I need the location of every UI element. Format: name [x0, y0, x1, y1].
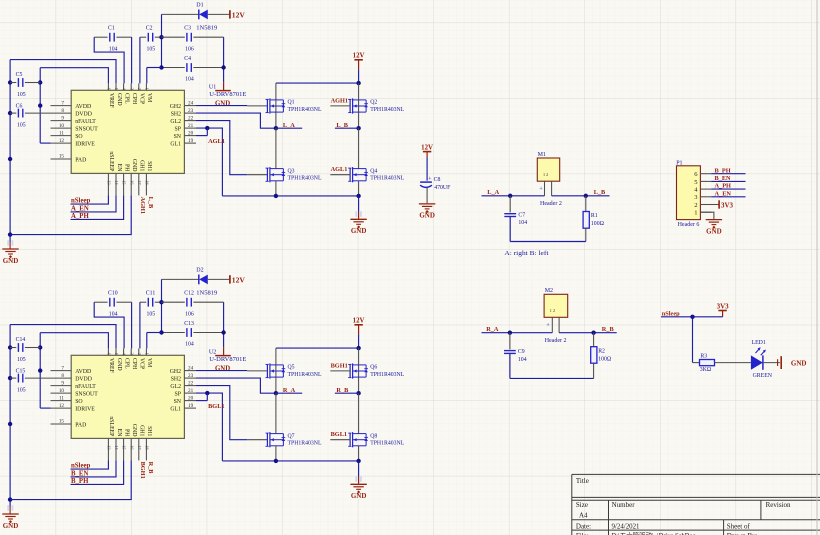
svg-text:L_A: L_A: [487, 189, 499, 196]
svg-text:23: 23: [188, 108, 194, 114]
IC designator U1: [209, 85, 247, 99]
svg-text:105: 105: [17, 123, 26, 129]
net label BGH1 rotated on GH1: [139, 462, 146, 479]
svg-text:L_A: L_A: [283, 122, 295, 129]
resistor R3 3K: [700, 354, 715, 374]
svg-text:BGH1: BGH1: [331, 363, 348, 370]
svg-text:Q3: Q3: [288, 168, 295, 174]
svg-text:+: +: [539, 185, 543, 192]
capacitor C14 105: [10, 337, 40, 363]
svg-text:12V: 12V: [232, 10, 246, 19]
wire CP1 jog: [94, 302, 124, 348]
svg-text:VM: VM: [146, 93, 152, 102]
svg-text:C9: C9: [518, 349, 525, 355]
resistor R2 100: [591, 333, 612, 379]
resistor R1 100: [583, 196, 604, 242]
header M2 (Header 2): [544, 288, 568, 344]
capacitor C13 104: [159, 321, 223, 348]
wire GND pin to left rail: [10, 195, 131, 234]
power port 12V: [230, 275, 245, 284]
wire GND top-left run: [10, 60, 116, 84]
wire bridge top rail: [276, 346, 361, 350]
net label BGH1 at Q6 gate: [330, 363, 350, 371]
IC U1 left pins 7-12,15: [51, 100, 99, 163]
svg-text:U-DRV8701E: U-DRV8701E: [209, 92, 246, 98]
svg-text:BGL1: BGL1: [208, 403, 224, 410]
svg-text:12V: 12V: [232, 275, 246, 284]
power port GND right of LED: [778, 356, 807, 369]
svg-text:1: 1: [145, 88, 150, 90]
wire left leg mid: [275, 128, 277, 168]
capacitor C4 104: [159, 56, 223, 83]
wire 12V to C8: [426, 158, 428, 181]
svg-text:GH1: GH1: [139, 425, 145, 436]
svg-text:GND: GND: [116, 358, 122, 371]
svg-text:nSleep: nSleep: [71, 198, 90, 205]
svg-text:R_B: R_B: [147, 462, 154, 475]
svg-text:TPH1R403NL: TPH1R403NL: [288, 372, 322, 378]
svg-text:VREF: VREF: [108, 358, 114, 374]
svg-text:+: +: [428, 176, 432, 183]
svg-text:GND: GND: [3, 257, 19, 265]
svg-text:15: 15: [59, 154, 65, 160]
svg-text:GND: GND: [419, 212, 435, 220]
wire P1 pin 4 net A_PH: [712, 183, 746, 190]
svg-text:AGH1: AGH1: [331, 98, 349, 105]
svg-text:GND: GND: [131, 159, 137, 172]
svg-text:20: 20: [188, 395, 194, 401]
svg-text:GND: GND: [706, 227, 722, 235]
svg-text:GND: GND: [215, 101, 230, 108]
node R_B phase B leg: [335, 387, 361, 396]
svg-text:C3: C3: [184, 26, 191, 32]
svg-text:EN: EN: [116, 429, 122, 438]
wire P1 pin 6 net B_PH: [712, 167, 746, 174]
wire nSleep to R3: [693, 317, 700, 363]
op-amp-style IC body U1 DRV8701E: [71, 90, 184, 173]
op-amp-style IC body U2 DRV8701E: [71, 355, 184, 438]
svg-text:19: 19: [188, 403, 194, 409]
wire SN sense link: [196, 128, 207, 136]
power port 12V bridge: [353, 318, 365, 349]
svg-text:C8: C8: [434, 177, 441, 183]
net label AGH1 at Q2 gate: [330, 98, 350, 106]
svg-text:C4: C4: [184, 56, 191, 62]
svg-text:GND: GND: [3, 522, 19, 530]
svg-text:R_A: R_A: [283, 387, 296, 394]
svg-text:19: 19: [188, 138, 194, 144]
svg-text:GH1: GH1: [139, 160, 145, 171]
svg-text:12V: 12V: [421, 144, 433, 151]
svg-text:105: 105: [17, 357, 26, 363]
capacitor C7 104: [504, 196, 527, 242]
wire C3-C4 right link: [221, 302, 225, 347]
svg-text:9: 9: [61, 115, 64, 121]
svg-text:SH1: SH1: [146, 426, 152, 436]
svg-text:1: 1: [145, 353, 150, 355]
transistor Q8 TPH1R403NL: [348, 432, 404, 447]
svg-text:SH2: SH2: [171, 376, 181, 382]
svg-text:SO: SO: [75, 134, 82, 140]
svg-text:GND: GND: [351, 492, 367, 500]
svg-text:Date:: Date:: [576, 523, 591, 531]
IC U2 bottom pins nSLEEP EN PH GND GH1 SH1: [107, 416, 153, 460]
svg-text:SP: SP: [175, 391, 181, 397]
svg-text:DVDD: DVDD: [75, 376, 92, 382]
wire P1 pin 5 net B_EN: [712, 175, 746, 182]
svg-text:U-DRV8701E: U-DRV8701E: [209, 357, 246, 363]
svg-text:Q4: Q4: [370, 168, 377, 174]
power port 3V3 at P1 pin 2: [712, 200, 734, 209]
wire CP rail vertical: [161, 14, 163, 67]
wire SP sense to source rail: [196, 391, 222, 461]
wire PH control + net label A_PH: [71, 195, 124, 220]
wire GH2 to high-side gate: [196, 105, 267, 107]
svg-text:CPH: CPH: [131, 358, 137, 370]
svg-text:9: 9: [61, 380, 64, 386]
svg-text:Sheet of: Sheet of: [727, 523, 751, 531]
wire SP sense to source rail: [196, 126, 222, 196]
svg-text:1N5819: 1N5819: [196, 290, 217, 296]
wire bridge top rail: [276, 81, 361, 85]
svg-text:GL2: GL2: [170, 384, 181, 390]
svg-text:PAD: PAD: [75, 157, 86, 163]
svg-text:12V: 12V: [353, 53, 365, 60]
svg-text:2: 2: [694, 202, 697, 209]
IC designator U2: [209, 350, 247, 364]
svg-text:DVDD: DVDD: [75, 111, 92, 117]
power port 12V bridge: [353, 53, 365, 84]
wire bridge bottom rail: [222, 459, 360, 463]
svg-text:GL1: GL1: [170, 141, 181, 147]
wire right leg source: [358, 181, 360, 196]
wire P1 pin 3 net A_EN: [712, 190, 746, 197]
svg-text:B_PH: B_PH: [71, 478, 89, 485]
svg-text:IDRIVE: IDRIVE: [75, 406, 95, 412]
ground bridge: [350, 461, 366, 500]
ground symbol left rail: [2, 505, 18, 530]
capacitor C6 105: [10, 104, 50, 129]
svg-text:2: 2: [137, 88, 142, 90]
svg-text:21: 21: [188, 388, 194, 394]
wire VREF top-left run: [40, 68, 108, 84]
wire left leg drain: [275, 348, 277, 393]
wire CP2 drop: [131, 302, 133, 348]
wire left ground rail: [8, 60, 12, 249]
capacitor C1 104: [94, 26, 131, 53]
svg-text:C15: C15: [16, 369, 26, 375]
svg-text:SP: SP: [175, 126, 181, 132]
wire bridge bottom rail: [222, 194, 360, 198]
svg-text:VREF: VREF: [108, 93, 114, 109]
power port 12V: [230, 10, 245, 19]
svg-text:B_EN: B_EN: [715, 175, 732, 182]
svg-text:3KΩ: 3KΩ: [700, 367, 712, 373]
svg-text:12V: 12V: [353, 318, 365, 325]
wire left leg source: [275, 446, 277, 461]
svg-text:GL2: GL2: [170, 119, 181, 125]
wire AVDD rail: [38, 333, 51, 408]
wire SH2 to phase node: [196, 113, 276, 128]
svg-text:104: 104: [185, 77, 194, 83]
svg-text:9/24/2021: 9/24/2021: [612, 523, 640, 531]
transistor Q3 TPH1R403NL: [266, 167, 322, 182]
svg-text:GND: GND: [351, 227, 367, 235]
net label R_B rotated on SH1: [147, 462, 154, 475]
wire EN control + net label B_EN: [71, 460, 117, 477]
svg-text:D1: D1: [196, 2, 203, 8]
svg-text:Q8: Q8: [370, 433, 377, 439]
svg-text:U1: U1: [209, 85, 216, 91]
svg-text:SH1: SH1: [146, 161, 152, 171]
svg-text:EN: EN: [116, 164, 122, 173]
svg-text:TPH1R403NL: TPH1R403NL: [288, 176, 322, 182]
svg-text:AVDD: AVDD: [75, 104, 91, 110]
svg-text:12: 12: [59, 403, 65, 409]
svg-text:TPH1R403NL: TPH1R403NL: [288, 441, 322, 447]
svg-text:Number: Number: [612, 501, 636, 509]
svg-text:R_A: R_A: [486, 326, 499, 333]
svg-text:100Ω: 100Ω: [591, 221, 605, 227]
svg-text:M1: M1: [538, 152, 546, 158]
wire CP2 drop: [131, 37, 133, 83]
wire left leg source: [275, 181, 277, 196]
svg-text:105: 105: [17, 388, 26, 394]
wire CP1 jog: [94, 37, 124, 83]
svg-text:15: 15: [59, 419, 65, 425]
svg-text:106: 106: [185, 312, 194, 318]
note text A right B left: [504, 250, 548, 257]
transistor Q1 TPH1R403NL: [266, 98, 322, 113]
svg-text:Q7: Q7: [288, 433, 295, 439]
node R_A phase A leg: [274, 387, 303, 396]
svg-text:7: 7: [61, 365, 64, 371]
wire VM feed: [147, 333, 162, 349]
transistor Q5 TPH1R403NL: [266, 363, 322, 378]
svg-text:CPH: CPH: [131, 93, 137, 105]
wire VREF top-left run: [40, 333, 108, 349]
svg-text:R3: R3: [700, 354, 707, 360]
svg-text:GH2: GH2: [170, 369, 181, 375]
header P1 (Header 6): [676, 161, 711, 228]
wire CP rail vertical: [161, 279, 163, 332]
wire 12V rail top (B): [162, 278, 230, 280]
svg-text:Q6: Q6: [370, 365, 377, 371]
svg-text:TPH1R403NL: TPH1R403NL: [370, 176, 404, 182]
svg-text:Header 2: Header 2: [540, 201, 562, 207]
svg-text:PAD: PAD: [75, 422, 86, 428]
transistor Q7 TPH1R403NL: [266, 432, 322, 447]
svg-text:7: 7: [61, 100, 64, 106]
IC U2 top pins VREF GND CPL CPH VCP VM: [107, 348, 153, 373]
svg-text:Header 6: Header 6: [678, 222, 700, 228]
svg-text:C7: C7: [518, 212, 525, 218]
header M1 (Header 2): [537, 152, 562, 207]
IC U2 left pins 7-12,15: [51, 365, 99, 428]
wire VCP drop: [140, 300, 164, 348]
wire nSleep control + net label nSleep: [71, 460, 109, 469]
svg-text:TPH1R403NL: TPH1R403NL: [288, 107, 322, 113]
svg-text:D:\五六管驱动\..\Drive.SchDoc: D:\五六管驱动\..\Drive.SchDoc: [612, 531, 696, 535]
wire LED cathode to GND: [763, 362, 780, 364]
ground at C8: [419, 204, 435, 220]
svg-text:R1: R1: [591, 213, 598, 219]
svg-text:C10: C10: [108, 291, 118, 297]
svg-text:L_B: L_B: [594, 189, 606, 196]
svg-text:GND: GND: [791, 359, 807, 367]
svg-text:106: 106: [185, 47, 194, 53]
svg-text:8: 8: [61, 108, 64, 114]
capacitor C11 105: [140, 291, 162, 318]
svg-text:L_B: L_B: [336, 122, 348, 129]
svg-text:SH2: SH2: [171, 111, 181, 117]
svg-text:1 2: 1 2: [543, 172, 548, 177]
svg-text:A: right B: left: A: right B: left: [504, 250, 548, 257]
svg-text:C12: C12: [184, 291, 194, 297]
transistor Q6 TPH1R403NL: [348, 363, 404, 378]
wire right leg drain: [358, 348, 360, 393]
svg-text:+: +: [546, 322, 550, 329]
net label AGH1 rotated on GH1: [139, 197, 146, 215]
capacitor C9 104: [504, 333, 527, 379]
svg-text:C14: C14: [16, 337, 26, 343]
wire left leg drain: [275, 83, 277, 128]
svg-text:22: 22: [188, 380, 194, 386]
svg-text:20: 20: [188, 130, 194, 136]
wire VCP drop: [140, 35, 164, 83]
wire EN control + net label A_EN: [71, 195, 117, 212]
wire right leg drain: [358, 83, 360, 128]
svg-text:TPH1R403NL: TPH1R403NL: [370, 107, 404, 113]
wire motor header to L_B: [552, 189, 610, 198]
svg-text:23: 23: [188, 373, 194, 379]
svg-text:A4: A4: [579, 512, 588, 520]
svg-text:Q1: Q1: [288, 100, 295, 106]
wire SH2 to phase node: [196, 378, 276, 393]
wire 12V rail top (A): [162, 13, 230, 15]
svg-text:CPL: CPL: [123, 93, 129, 104]
net label AGL1 on GL1: [208, 138, 225, 145]
wire nSleep control + net label nSleep: [71, 195, 109, 204]
svg-text:AGL1: AGL1: [331, 166, 348, 173]
svg-text:R_B: R_B: [602, 326, 615, 333]
svg-text:A_PH: A_PH: [715, 183, 732, 190]
svg-text:105: 105: [147, 312, 156, 318]
svg-text:C11: C11: [146, 291, 156, 297]
svg-text:M2: M2: [545, 288, 553, 294]
wire GH2 to high-side gate: [196, 370, 267, 372]
diode D2 1N5819: [196, 267, 217, 296]
svg-text:Q5: Q5: [288, 365, 295, 371]
power port GND at VM cap: [215, 347, 231, 372]
wire motor header to R_B: [559, 326, 617, 335]
svg-text:TPH1R403NL: TPH1R403NL: [370, 372, 404, 378]
diode D1 1N5819: [196, 2, 217, 31]
svg-text:10: 10: [59, 123, 65, 129]
svg-text:R_B: R_B: [336, 387, 349, 394]
svg-text:nFAULT: nFAULT: [75, 119, 96, 125]
wire VM feed: [147, 68, 162, 84]
IC U1 top pins VREF GND CPL CPH VCP VM: [107, 83, 153, 108]
capacitor C10 104: [94, 291, 131, 318]
wire snubber bottom B: [510, 377, 594, 379]
svg-text:100Ω: 100Ω: [598, 356, 612, 362]
net label BGL1 at Q8 gate: [330, 431, 350, 440]
IC U1 bottom pins nSLEEP EN PH GND GH1 SH1: [107, 151, 153, 195]
svg-text:GND: GND: [116, 93, 122, 106]
net label nSleep wire: [661, 310, 717, 319]
svg-text:GL1: GL1: [170, 406, 181, 412]
wire C8 to ground: [426, 188, 428, 204]
svg-text:B_EN: B_EN: [71, 471, 88, 478]
wire AVDD rail: [38, 68, 51, 143]
transistor Q2 TPH1R403NL: [348, 98, 404, 113]
wire GL2 to low-side gate: [196, 386, 267, 440]
ground bridge: [350, 196, 366, 235]
svg-text:CPL: CPL: [123, 358, 129, 369]
wire GL2 to low-side gate: [196, 121, 267, 175]
svg-text:L_B: L_B: [147, 197, 154, 209]
sheet border right edge: [816, 0, 818, 535]
svg-text:D2: D2: [196, 267, 203, 273]
svg-text:3V3: 3V3: [717, 302, 730, 310]
svg-text:SN: SN: [174, 134, 182, 140]
node L_B phase B leg: [335, 122, 361, 131]
capacitor C3 106: [162, 26, 224, 53]
transistor Q4 TPH1R403NL: [348, 167, 404, 182]
svg-text:12: 12: [59, 138, 65, 144]
svg-text:VCP: VCP: [139, 93, 145, 104]
svg-text:22: 22: [188, 115, 194, 121]
wire right leg mid: [358, 128, 360, 168]
svg-text:Size: Size: [576, 501, 588, 509]
svg-text:2: 2: [137, 353, 142, 355]
net label L_B rotated on SH1: [147, 197, 154, 209]
svg-text:VCP: VCP: [139, 358, 145, 369]
wire PH control + net label B_PH: [71, 460, 124, 485]
wire GND pin to left rail: [10, 460, 131, 499]
svg-text:nSleep: nSleep: [662, 310, 680, 317]
svg-text:10: 10: [59, 388, 65, 394]
capacitor C5 105: [10, 72, 40, 98]
svg-text:1N5819: 1N5819: [196, 25, 217, 31]
svg-text:GND: GND: [215, 366, 230, 373]
ground at P1 pin 1: [700, 212, 722, 235]
wire GND top-left run: [10, 325, 116, 349]
wire snubber bottom: [510, 241, 586, 243]
svg-text:21: 21: [188, 123, 194, 129]
svg-text:SN: SN: [174, 399, 182, 405]
node L_A phase A leg: [274, 122, 303, 131]
svg-text:U2: U2: [209, 350, 216, 356]
svg-text:AGH1: AGH1: [139, 197, 146, 215]
svg-text:AVDD: AVDD: [75, 369, 91, 375]
svg-text:GND: GND: [131, 424, 137, 437]
capacitor C2 105: [140, 26, 162, 53]
wire left leg mid: [275, 393, 277, 433]
svg-text:C1: C1: [108, 26, 115, 32]
svg-text:IDRIVE: IDRIVE: [75, 141, 95, 147]
svg-text:LED1: LED1: [752, 340, 766, 346]
svg-text:PH: PH: [123, 429, 129, 437]
svg-text:Revision: Revision: [766, 501, 791, 509]
svg-text:nSLEEP: nSLEEP: [108, 416, 114, 436]
svg-text:BGL1: BGL1: [331, 431, 347, 438]
IC U1 right pins 24-19: [170, 100, 196, 147]
capacitor C8 470UF electrolytic: [420, 176, 451, 191]
wire R3 to LED: [715, 362, 751, 364]
svg-text:A_EN: A_EN: [715, 190, 732, 197]
